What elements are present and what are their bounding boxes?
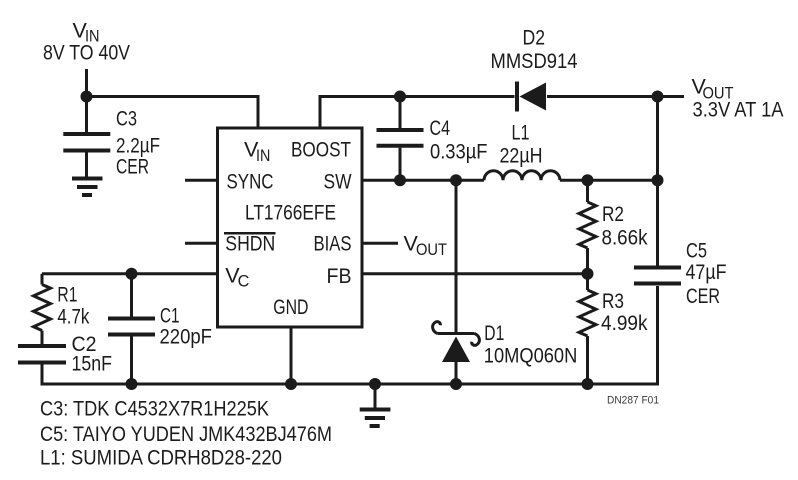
svg-text:GND: GND xyxy=(273,295,308,319)
svg-text:4.7k: 4.7k xyxy=(57,304,89,328)
svg-text:220pF: 220pF xyxy=(160,325,213,349)
svg-text:47µF: 47µF xyxy=(686,260,727,284)
svg-text:C3: TDK C4532X7R1H225K: C3: TDK C4532X7R1H225K xyxy=(40,397,270,421)
svg-text:C4: C4 xyxy=(430,116,451,140)
svg-text:4.99k: 4.99k xyxy=(601,311,648,335)
svg-text:22µH: 22µH xyxy=(500,144,543,168)
svg-text:OUT: OUT xyxy=(416,241,447,259)
svg-text:R2: R2 xyxy=(602,202,624,226)
svg-text:CER: CER xyxy=(686,284,720,308)
svg-text:C3: C3 xyxy=(116,107,137,131)
svg-text:L1: SUMIDA CDRH8D28-220: L1: SUMIDA CDRH8D28-220 xyxy=(40,446,282,470)
svg-text:D1: D1 xyxy=(484,321,504,345)
svg-text:C: C xyxy=(238,272,250,290)
svg-text:8.66k: 8.66k xyxy=(602,226,648,250)
svg-text:R1: R1 xyxy=(57,283,77,307)
svg-text:15nF: 15nF xyxy=(72,352,113,376)
svg-text:BIAS: BIAS xyxy=(314,232,352,256)
svg-text:D2: D2 xyxy=(523,26,546,50)
svg-text:8V TO 40V: 8V TO 40V xyxy=(43,41,131,65)
svg-text:SHDN: SHDN xyxy=(225,232,275,256)
svg-text:FB: FB xyxy=(327,264,352,288)
svg-text:0.33µF: 0.33µF xyxy=(430,139,488,163)
svg-text:10MQ060N: 10MQ060N xyxy=(484,343,578,367)
svg-text:IN: IN xyxy=(256,147,270,165)
svg-text:CER: CER xyxy=(116,154,149,178)
svg-text:SYNC: SYNC xyxy=(227,169,274,193)
svg-text:MMSD914: MMSD914 xyxy=(491,49,578,73)
svg-text:SW: SW xyxy=(324,170,353,194)
svg-text:L1: L1 xyxy=(512,121,530,145)
svg-text:DN287 F01: DN287 F01 xyxy=(607,395,659,407)
svg-text:3.3V AT 1A: 3.3V AT 1A xyxy=(693,98,785,122)
svg-text:C5: TAIYO YUDEN JMK432BJ476M: C5: TAIYO YUDEN JMK432BJ476M xyxy=(40,422,332,446)
svg-text:LT1766EFE: LT1766EFE xyxy=(245,201,336,225)
svg-text:R3: R3 xyxy=(602,289,624,313)
svg-text:BOOST: BOOST xyxy=(291,138,351,162)
